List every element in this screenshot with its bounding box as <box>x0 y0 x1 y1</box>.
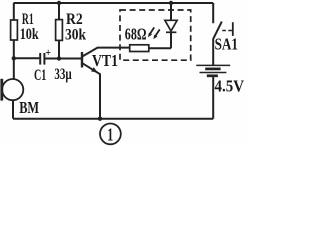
svg-text:1: 1 <box>107 124 113 144</box>
svg-text:33µ: 33µ <box>54 66 71 83</box>
svg-text:10k: 10k <box>20 26 39 43</box>
svg-text:R2: R2 <box>66 11 83 28</box>
svg-text:SA1: SA1 <box>215 35 238 54</box>
svg-text:C1: C1 <box>34 67 46 84</box>
svg-text:30k: 30k <box>65 27 86 44</box>
svg-text:BM: BM <box>19 98 39 117</box>
svg-text:68Ω: 68Ω <box>125 25 147 44</box>
svg-text:4.5V: 4.5V <box>215 77 245 96</box>
svg-text:VT1: VT1 <box>92 51 118 70</box>
svg-text:+: + <box>45 45 51 59</box>
